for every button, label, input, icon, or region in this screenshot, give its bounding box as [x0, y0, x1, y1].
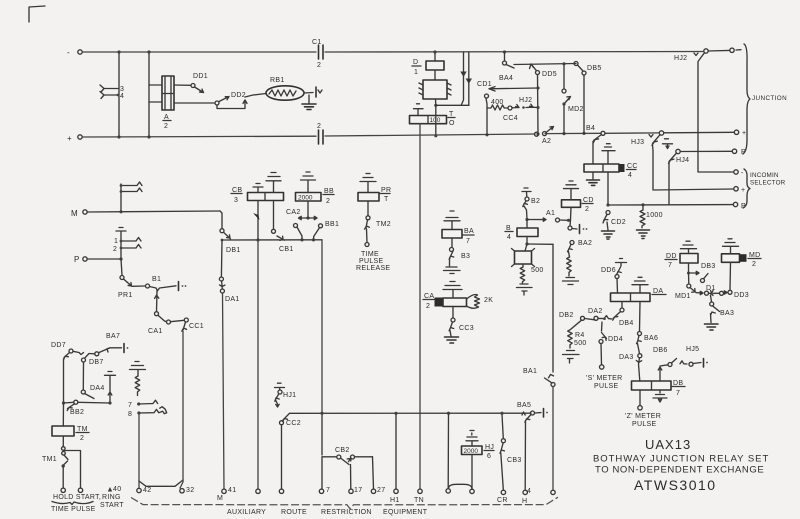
wire CC1 down to 32	[180, 331, 183, 488]
svg-text:DD7: DD7	[51, 342, 66, 349]
wire top negative rail	[83, 51, 316, 53]
svg-text:PULSE: PULSE	[359, 258, 383, 265]
svg-text:UAX13: UAX13	[645, 437, 691, 452]
svg-text:RING: RING	[102, 494, 121, 501]
svg-text:C1: C1	[312, 39, 322, 46]
ground above P chain	[116, 228, 126, 260]
contact CC3	[452, 307, 454, 319]
svg-text:TM1: TM1	[42, 456, 57, 463]
corner mark	[29, 6, 45, 22]
contact TM2	[367, 201, 369, 216]
svg-text:HJ2: HJ2	[519, 97, 532, 104]
svg-text:CA2: CA2	[286, 209, 301, 216]
svg-text:2: 2	[585, 206, 589, 213]
battery above 42 chain	[130, 362, 146, 377]
svg-text:PULSE: PULSE	[594, 383, 618, 390]
svg-text:7: 7	[668, 262, 672, 269]
svg-text:M: M	[217, 495, 223, 502]
svg-text:32: 32	[186, 487, 194, 494]
svg-text:H: H	[522, 498, 527, 505]
terminal CR	[501, 490, 505, 494]
terminal 32	[180, 489, 184, 493]
capacitor above CC4	[602, 144, 615, 164]
svg-text:BA5: BA5	[517, 402, 531, 409]
wire BA1 down	[552, 387, 554, 490]
svg-text:2: 2	[752, 261, 756, 268]
relay TM2 coil	[62, 403, 64, 426]
svg-text:17: 17	[354, 487, 362, 494]
svg-text:HJ3: HJ3	[631, 139, 644, 146]
svg-text:DA3: DA3	[619, 354, 634, 361]
svg-text:2: 2	[326, 198, 330, 205]
resistance box 100 TO	[410, 116, 447, 124]
svg-text:7: 7	[466, 238, 470, 245]
svg-text:DB6: DB6	[653, 347, 668, 354]
wire long vertical TN	[419, 124, 421, 489]
svg-text:DA1: DA1	[225, 296, 240, 303]
svg-text:CR: CR	[497, 497, 508, 504]
wire DA1 down to 41	[223, 293, 225, 489]
svg-text:HJ2: HJ2	[674, 55, 687, 62]
contact TM1	[62, 436, 64, 447]
svg-text:RELEASE: RELEASE	[356, 265, 390, 272]
relay MD2 coil	[722, 254, 740, 262]
svg-text:DD2: DD2	[231, 92, 246, 99]
svg-text:BB1: BB1	[325, 221, 339, 228]
svg-text:DB1: DB1	[226, 247, 241, 254]
svg-text:O: O	[449, 120, 455, 127]
svg-text:3: 3	[234, 197, 238, 204]
svg-text:DD4: DD4	[608, 336, 623, 343]
svg-text:1: 1	[414, 69, 418, 76]
wire start branch	[64, 451, 81, 489]
wire x322 long vertical	[321, 240, 323, 413]
wire CC4 right stem	[607, 172, 609, 205]
svg-text:+: +	[741, 187, 745, 194]
terminal TN	[418, 489, 422, 493]
relay CD2 coil	[562, 200, 581, 208]
svg-text:MD2: MD2	[568, 106, 584, 113]
svg-text:DB4: DB4	[619, 320, 634, 327]
wire vertical x149	[148, 52, 150, 137]
wire incoming P rail	[608, 204, 734, 206]
svg-text:BA6: BA6	[644, 335, 658, 342]
svg-text:TM2: TM2	[376, 221, 391, 228]
terminal x258	[256, 489, 260, 493]
contact PR1	[121, 259, 122, 275]
svg-text:DD1: DD1	[193, 73, 208, 80]
svg-text:BA3: BA3	[720, 310, 734, 317]
svg-text:DD5: DD5	[542, 71, 557, 78]
svg-text:DB7: DB7	[89, 359, 104, 366]
svg-text:100: 100	[430, 117, 441, 124]
svg-text:'S' METER: 'S' METER	[586, 375, 623, 382]
bracket junction	[743, 44, 750, 154]
diode arrows	[462, 52, 464, 105]
svg-text:TIME: TIME	[361, 251, 379, 258]
svg-text:DB2: DB2	[559, 312, 574, 319]
capacitor above CB3 right	[266, 173, 281, 193]
svg-text:SELECTOR: SELECTOR	[750, 180, 786, 187]
ground mark near HJ3	[663, 139, 673, 149]
svg-text:6: 6	[487, 453, 491, 460]
contact MD2	[562, 62, 565, 65]
relay PR	[358, 193, 379, 202]
contact CB1	[273, 201, 275, 230]
battery under DB right	[653, 390, 667, 402]
terminal junction plus	[734, 130, 738, 134]
svg-text:A1: A1	[546, 210, 555, 217]
terminal H1	[394, 489, 398, 493]
svg-text:EQUIPMENT: EQUIPMENT	[383, 509, 428, 516]
contact on RB1	[315, 87, 317, 97]
svg-text:4: 4	[507, 234, 511, 241]
svg-text:CC1: CC1	[189, 323, 204, 330]
svg-text:PR1: PR1	[118, 292, 133, 299]
svg-text:HJ5: HJ5	[686, 346, 699, 353]
svg-text:+: +	[67, 134, 72, 143]
capacitor above DA	[632, 277, 648, 293]
svg-text:1: 1	[114, 238, 118, 245]
contact B2	[522, 188, 531, 197]
svg-text:BB2: BB2	[70, 409, 84, 416]
svg-text:40: 40	[113, 486, 121, 493]
svg-text:2: 2	[164, 123, 168, 130]
svg-text:3: 3	[120, 86, 124, 93]
wire vertical x538	[537, 75, 540, 135]
wire y413 rail	[290, 412, 532, 414]
svg-text:7: 7	[326, 487, 330, 494]
wire y244 to BA1	[527, 243, 553, 245]
resistor R4 500	[571, 320, 582, 329]
contact CD1	[485, 94, 489, 98]
capacitor DA4	[105, 372, 116, 404]
relay DB	[632, 381, 672, 390]
wire CB3 left stem down	[257, 240, 259, 489]
wire M rail	[87, 211, 220, 212]
svg-text:2: 2	[426, 303, 430, 310]
wire DB center down	[639, 390, 641, 406]
svg-text:CC3: CC3	[459, 325, 474, 332]
resistor 42 chain	[135, 376, 140, 396]
svg-text:42: 42	[143, 487, 151, 494]
svg-text:CD1: CD1	[477, 81, 492, 88]
svg-text:41: 41	[228, 487, 236, 494]
svg-text:27: 27	[377, 487, 385, 494]
terminal 41	[222, 489, 226, 493]
svg-text:MD1: MD1	[675, 293, 691, 300]
svg-text:TN: TN	[414, 497, 424, 504]
svg-text:500: 500	[531, 267, 544, 274]
svg-text:RESTRICTION: RESTRICTION	[321, 509, 372, 516]
contact DB1	[220, 211, 222, 229]
terminal H 4	[523, 490, 527, 494]
capacitor above BB2	[301, 172, 316, 193]
svg-text:BA: BA	[464, 228, 474, 235]
battery under 500	[517, 284, 533, 295]
svg-text:P: P	[74, 255, 80, 264]
svg-text:1000: 1000	[646, 212, 663, 219]
transformer box	[423, 80, 447, 99]
svg-text:CB3: CB3	[507, 457, 522, 464]
contact B3	[451, 238, 453, 247]
svg-text:7: 7	[128, 402, 132, 409]
svg-text:4: 4	[628, 172, 632, 179]
wire y240 rail	[222, 239, 322, 241]
svg-text:B1: B1	[152, 276, 161, 283]
svg-text:2: 2	[113, 246, 117, 253]
bracket auxiliary	[131, 497, 558, 509]
svg-text:ROUTE: ROUTE	[281, 509, 307, 516]
contact arrows above M	[120, 184, 122, 212]
svg-text:BA7: BA7	[106, 333, 120, 340]
svg-text:2000: 2000	[298, 195, 313, 202]
svg-text:BOTHWAY JUNCTION RELAY SET: BOTHWAY JUNCTION RELAY SET	[593, 454, 769, 465]
contact BA2	[570, 241, 574, 245]
svg-text:B4: B4	[586, 125, 595, 132]
terminal junction P	[732, 149, 736, 153]
wire 42-32 link	[139, 480, 183, 486]
svg-text:CC4: CC4	[503, 115, 518, 122]
capacitor above TO box	[414, 104, 424, 116]
terminal 17	[350, 465, 352, 490]
svg-text:H1: H1	[390, 497, 400, 504]
contact BA4	[504, 52, 506, 61]
terminal START	[78, 488, 82, 492]
terminal 42	[137, 488, 141, 492]
svg-text:TIME PULSE: TIME PULSE	[51, 506, 96, 513]
svg-text:BA2: BA2	[578, 240, 592, 247]
terminal 27	[373, 457, 374, 489]
svg-text:DA4: DA4	[90, 385, 105, 392]
svg-text:2: 2	[317, 123, 321, 130]
svg-text:P: P	[741, 149, 746, 156]
svg-text:DB3: DB3	[701, 263, 716, 270]
ground under CC4	[592, 172, 594, 179]
svg-text:TO NON-DEPENDENT EXCHANGE: TO NON-DEPENDENT EXCHANGE	[595, 465, 764, 476]
terminal incoming plus	[734, 187, 738, 191]
terminal x281	[279, 489, 283, 493]
svg-text:'Z' METER: 'Z' METER	[625, 413, 661, 420]
terminal RING	[108, 487, 112, 492]
svg-text:AUXILIARY: AUXILIARY	[227, 509, 266, 516]
capacitor above CA2	[443, 282, 462, 299]
svg-text:RB1: RB1	[270, 77, 285, 84]
contact DA1	[220, 240, 223, 277]
svg-text:2: 2	[80, 435, 84, 442]
terminal junction minus	[730, 48, 734, 52]
svg-text:2K: 2K	[484, 297, 493, 304]
svg-text:CA1: CA1	[148, 328, 163, 335]
svg-text:M: M	[71, 209, 78, 218]
contact CC1	[184, 318, 188, 322]
contact 3 4 arrows	[100, 85, 118, 89]
relay A1 coil	[162, 76, 174, 110]
svg-text:4: 4	[527, 488, 531, 495]
svg-text:-: -	[67, 48, 70, 57]
resistor under BA2	[567, 257, 572, 276]
wire H1 drop	[394, 412, 397, 415]
rectifier box under B4	[515, 251, 532, 264]
svg-text:8: 8	[128, 411, 132, 418]
svg-text:HJ4: HJ4	[676, 157, 689, 164]
svg-text:500: 500	[574, 340, 587, 347]
contact CA1	[155, 312, 159, 316]
wire x63 vertical	[63, 359, 65, 403]
svg-text:ATWS3010: ATWS3010	[634, 477, 717, 493]
svg-text:B2: B2	[531, 198, 540, 205]
terminal HOLD	[61, 488, 65, 492]
svg-text:DA2: DA2	[588, 308, 603, 315]
svg-text:2000: 2000	[464, 448, 479, 455]
wire A1 rail	[525, 218, 528, 221]
terminal x553	[551, 490, 555, 494]
svg-text:DD6: DD6	[601, 267, 616, 274]
ground under RB1	[308, 95, 310, 103]
wire BA5 down	[524, 422, 526, 489]
bracket incoming selector	[743, 169, 750, 208]
svg-text:JUNCTION: JUNCTION	[752, 95, 787, 102]
svg-text:HJ1: HJ1	[283, 392, 296, 399]
capacitor above CB3 left	[253, 184, 263, 193]
wire CD2 stem down	[570, 207, 571, 226]
svg-text:R4: R4	[575, 332, 585, 339]
terminal incoming P	[733, 202, 737, 206]
capacitor above PR	[360, 174, 376, 193]
wire DD2 loop	[217, 100, 247, 109]
relay CC4	[584, 164, 619, 172]
svg-text:DD3: DD3	[734, 292, 749, 299]
svg-text:A2: A2	[542, 138, 551, 145]
svg-text:CB2: CB2	[335, 447, 350, 454]
terminal 7	[321, 457, 323, 489]
svg-text:DB5: DB5	[587, 65, 602, 72]
svg-text:START: START	[100, 502, 124, 509]
diode on CB3 left stem	[257, 201, 259, 241]
svg-text:CC2: CC2	[286, 420, 301, 427]
svg-text:2: 2	[317, 62, 321, 69]
svg-text:T: T	[384, 196, 389, 203]
wire 42 down	[138, 413, 140, 488]
battery under B3	[444, 267, 461, 274]
contact A1	[556, 218, 560, 222]
battery under BA2	[563, 278, 579, 285]
wire vertical x119	[118, 52, 120, 137]
svg-text:4: 4	[120, 93, 124, 100]
wire BB2 stem	[307, 201, 309, 218]
relay HJ6 2000 box	[447, 413, 449, 488]
svg-text:INCOMIN: INCOMIN	[750, 172, 779, 179]
svg-text:-: -	[741, 170, 744, 177]
svg-text:CD2: CD2	[611, 219, 626, 226]
terminal incoming minus	[734, 170, 738, 174]
svg-text:CB1: CB1	[279, 246, 294, 253]
capacitor above HJ1	[275, 383, 285, 390]
relay BB2 coil 2000	[296, 193, 322, 202]
svg-text:BA1: BA1	[523, 368, 537, 375]
wire B1 down	[155, 291, 159, 312]
svg-text:+: +	[742, 130, 746, 137]
svg-text:BA4: BA4	[499, 75, 513, 82]
svg-text:B3: B3	[461, 253, 470, 260]
svg-text:D: D	[413, 59, 418, 66]
svg-text:7: 7	[676, 390, 680, 397]
contact BA1	[552, 244, 554, 372]
svg-text:PULSE: PULSE	[632, 421, 656, 428]
svg-text:HOLD START,: HOLD START,	[53, 494, 101, 501]
